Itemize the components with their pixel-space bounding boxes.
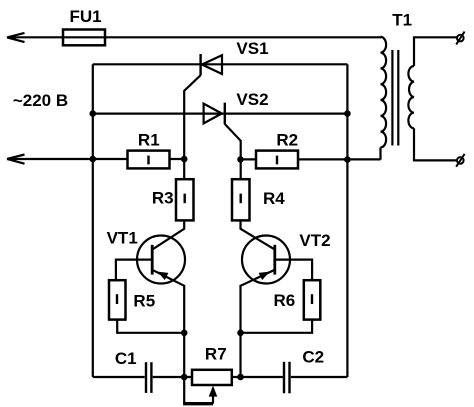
svg-text:FU1: FU1 <box>69 7 101 26</box>
svg-text:VS1: VS1 <box>236 39 268 58</box>
svg-text:~220 В: ~220 В <box>13 91 68 110</box>
svg-text:C1: C1 <box>115 349 137 368</box>
svg-text:VT2: VT2 <box>299 231 330 250</box>
svg-text:R4: R4 <box>263 189 285 208</box>
svg-text:R1: R1 <box>138 131 160 150</box>
svg-text:VT1: VT1 <box>107 228 138 247</box>
svg-text:R6: R6 <box>274 291 296 310</box>
svg-text:R3: R3 <box>152 189 174 208</box>
svg-text:R2: R2 <box>276 130 298 149</box>
svg-text:T1: T1 <box>392 10 412 29</box>
svg-text:R5: R5 <box>133 292 155 311</box>
svg-text:VS2: VS2 <box>236 90 268 109</box>
svg-text:C2: C2 <box>302 348 324 367</box>
svg-text:R7: R7 <box>205 345 227 364</box>
